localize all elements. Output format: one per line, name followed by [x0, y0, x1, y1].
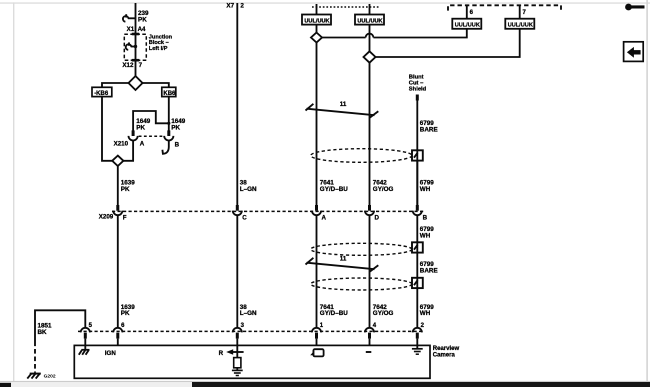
svg-text:WH: WH: [420, 186, 431, 193]
pin label 7: [139, 62, 143, 69]
connector X209 dashed mate line: [112, 210, 424, 212]
label Rearview Camera: [433, 346, 460, 358]
svg-text:WH: WH: [420, 233, 431, 240]
camera pin 3: [233, 328, 242, 346]
svg-text:X210: X210: [114, 140, 129, 147]
label 38 L-GN lower: [240, 304, 257, 317]
label 6799 BARE lower: [420, 261, 438, 274]
toolbar wrench icon: [625, 4, 644, 11]
pin label B: [175, 142, 180, 149]
X209 pin D: [365, 205, 374, 215]
svg-text:L–GN: L–GN: [240, 310, 257, 317]
camera pin 5: [81, 328, 90, 346]
svg-text:G202: G202: [44, 374, 56, 380]
pigtail stub below X210 B: [162, 141, 168, 154]
label 11 upper: [340, 101, 347, 108]
svg-text:C: C: [242, 214, 247, 221]
wire -KB6 down to splice S2: [102, 97, 112, 161]
resistor ground: [232, 368, 243, 376]
wire above UUL/UUK no.4: [519, 5, 521, 18]
svg-text:B: B: [423, 214, 428, 221]
label 1639 PK lower: [121, 304, 136, 317]
svg-text:BK: BK: [38, 329, 48, 336]
svg-text:PK: PK: [136, 125, 145, 132]
twisted-pair mark 11 lower: [306, 258, 379, 272]
connector UUL/UUK no.3: [452, 19, 481, 29]
shield loop ellipse E3: [311, 278, 412, 290]
wire UUL/UUK no.2 down: [369, 25, 371, 52]
wire C to camera pin 3: [236, 215, 238, 327]
wire X210 A to splice S2: [123, 141, 133, 161]
wire through junction block: [135, 33, 137, 76]
label 7641 GY/D-BU lower: [320, 304, 348, 317]
svg-text:IGN: IGN: [105, 350, 117, 357]
svg-text:D: D: [375, 214, 380, 221]
label IGN: [105, 350, 117, 357]
svg-text:BARE: BARE: [420, 268, 438, 275]
internal ground at pin 5: [79, 345, 90, 354]
pin label 1: [320, 323, 324, 329]
camera pin 6: [113, 328, 122, 346]
branch jog to X210 pin A: [133, 111, 170, 131]
camera icon at pin 1: [310, 349, 323, 356]
dashed wire to G202: [34, 342, 36, 373]
wire D to camera pin 4: [369, 215, 371, 327]
svg-text:GY/D–BU: GY/D–BU: [320, 186, 348, 193]
svg-text:PK: PK: [171, 125, 180, 132]
svg-text:R: R: [219, 350, 224, 357]
wire above UUL/UUK no.2: [369, 4, 371, 15]
label X7: [226, 3, 234, 10]
pin label 2: [421, 323, 425, 329]
X209 pin C: [233, 205, 242, 215]
shield termination T1: [412, 150, 423, 160]
svg-text:GY/OG: GY/OG: [373, 310, 394, 317]
tie line S4 to pin 7: [376, 30, 520, 58]
svg-text:A: A: [140, 140, 145, 147]
connector UUL/UUK no.2: [355, 15, 384, 25]
connector UUL/UUK no.1: [302, 15, 331, 25]
label X210: [114, 140, 129, 147]
svg-text:KB6: KB6: [163, 91, 176, 97]
wire above UUL/UUK no.1: [316, 4, 318, 15]
shield drain wire to X209 B: [416, 161, 418, 206]
label 239 PK: [138, 10, 149, 23]
svg-text:Left I/P: Left I/P: [149, 46, 168, 52]
svg-text:L–GN: L–GN: [240, 186, 257, 193]
svg-text:WH: WH: [420, 310, 431, 317]
wire A to camera pin 1: [316, 215, 318, 327]
pin label C: [242, 214, 247, 221]
label 1649 PK left: [136, 118, 151, 131]
svg-text:7: 7: [139, 62, 143, 69]
splice diamond S4: [364, 51, 376, 62]
svg-text:F: F: [123, 214, 127, 221]
label 7641 GY/D-BU upper: [320, 180, 348, 193]
svg-text:PK: PK: [121, 310, 130, 317]
pin label 5: [89, 323, 93, 329]
splice diamond S2: [112, 156, 123, 166]
wire 1639 PK down to X209 F: [117, 166, 119, 205]
pin label X12: [122, 62, 134, 69]
pin label 4: [373, 323, 377, 329]
svg-text:2: 2: [240, 3, 244, 10]
twisted-pair mark 11 upper: [306, 104, 379, 118]
camera connector dashed mate line: [78, 330, 424, 332]
svg-text:B: B: [175, 142, 180, 149]
pin label A: [322, 214, 327, 221]
svg-text:PK: PK: [121, 186, 130, 193]
shield termination T2: [412, 242, 423, 252]
X210 mate dashed line: [139, 135, 164, 137]
label Junction Block - Left I/P: [149, 34, 173, 52]
rearview camera box: [74, 345, 430, 378]
pin label F: [123, 214, 127, 221]
fuse tap inside junction block: [126, 42, 137, 50]
svg-text:GY/D–BU: GY/D–BU: [320, 310, 348, 317]
R input arrow at pin 3: [226, 345, 243, 357]
shield termination T3: [412, 278, 423, 288]
blunt cut stub: [416, 95, 419, 101]
wire UUL/UUK no.1 to diamond S3: [316, 25, 318, 33]
pin label 3: [241, 323, 245, 329]
pin label B: [423, 214, 428, 221]
wire B to camera pin 2: [416, 215, 418, 327]
label 11 lower: [340, 256, 347, 263]
wire S3 down to X209 A: [316, 43, 318, 206]
pin label 6: [470, 10, 474, 16]
svg-text:PK: PK: [138, 16, 147, 23]
shield drain wire upper: [416, 101, 418, 206]
back arrow button: [624, 42, 644, 62]
svg-text:-KB6: -KB6: [94, 91, 109, 97]
ground G202: [27, 374, 41, 379]
label 38 L-GN upper: [240, 180, 257, 193]
label 6799 BARE upper: [420, 120, 438, 133]
label 1649 PK right: [171, 118, 186, 131]
label 7642 GY/OG lower: [373, 304, 394, 317]
svg-text:UUL/UUK: UUL/UUK: [455, 23, 480, 29]
label G202: [44, 374, 56, 380]
wire 239 PK vertical feed: [135, 3, 137, 33]
label Blunt Cut - Shield: [409, 75, 427, 93]
connector UUL/UUK no.4: [505, 19, 534, 29]
svg-text:UUL/UUK: UUL/UUK: [357, 18, 382, 24]
label 1851 BK: [38, 322, 53, 335]
connector X210 pin A: [129, 130, 138, 140]
svg-text:X12: X12: [122, 62, 134, 69]
svg-text:UUL/UUK: UUL/UUK: [304, 18, 329, 24]
camera pin 2: [413, 328, 422, 346]
dashed header connector top right: [448, 5, 561, 10]
label X209: [99, 213, 114, 220]
label 1639 PK upper: [121, 180, 136, 193]
label 7642 GY/OG upper: [373, 180, 394, 193]
pin label 2: [240, 3, 244, 10]
svg-text:A: A: [322, 214, 327, 221]
svg-text:A4: A4: [138, 26, 146, 33]
pin tick top of junction block: [132, 33, 139, 36]
fuse box KB6: [162, 87, 176, 97]
svg-text:UUL/UUK: UUL/UUK: [508, 23, 533, 29]
pin label X1: [127, 26, 135, 33]
splice diamond S1: [129, 76, 143, 90]
junction block - left I/P (dashed outline): [124, 34, 146, 60]
svg-text:Shield: Shield: [409, 87, 427, 93]
wire above UUL/UUK no.3: [466, 5, 468, 18]
X209 pin B: [413, 205, 422, 215]
pin label A: [140, 140, 145, 147]
X209 pin A: [312, 205, 321, 215]
pin label 6: [121, 323, 125, 329]
X209 pin F: [113, 205, 122, 215]
connector stub hook at X1: [123, 14, 136, 22]
svg-text:BARE: BARE: [420, 127, 438, 134]
svg-text:X1: X1: [127, 26, 135, 33]
wire 1851 BK branch: [35, 310, 85, 341]
svg-text:X209: X209: [99, 213, 114, 220]
minus sign at pin 4: [366, 351, 372, 353]
chassis ground at pin 2: [412, 345, 423, 354]
wire 38 L-GN center: [236, 3, 238, 205]
label 6799 WH bottom: [420, 304, 435, 317]
camera pin 1: [312, 328, 321, 346]
shield loop ellipse E1: [311, 149, 412, 163]
connector X210 pin B: [164, 130, 173, 140]
wire S4 down to X209 D: [369, 63, 371, 206]
pin label A4: [138, 26, 146, 33]
svg-text:11: 11: [340, 256, 347, 263]
wire S1 to -KB6: [102, 83, 129, 87]
dotted header tie line: [312, 6, 379, 8]
svg-text:11: 11: [340, 101, 347, 108]
wire F to camera pin 6: [117, 215, 119, 327]
wire S1 to KB6: [143, 83, 169, 87]
wire KB6 down: [168, 97, 170, 131]
label 6799 WH upper: [420, 180, 435, 193]
camera pin 4: [365, 328, 374, 346]
svg-text:GY/OG: GY/OG: [373, 186, 394, 193]
label R: [219, 350, 224, 357]
svg-text:X7: X7: [226, 3, 234, 10]
tie line S3 to pin 6 with hop over wire 2: [322, 30, 467, 38]
pin label 7: [523, 10, 527, 16]
splice diamond S3: [311, 33, 322, 43]
svg-text:Rearview: Rearview: [433, 346, 460, 352]
label 6799 WH mid: [420, 226, 435, 239]
svg-text:Camera: Camera: [433, 352, 456, 358]
resistor R1: [234, 358, 241, 368]
pin tick bottom of junction block: [132, 59, 139, 62]
pin label D: [375, 214, 380, 221]
fuse box -KB6: [92, 87, 112, 97]
shield loop ellipse E2: [311, 243, 412, 255]
